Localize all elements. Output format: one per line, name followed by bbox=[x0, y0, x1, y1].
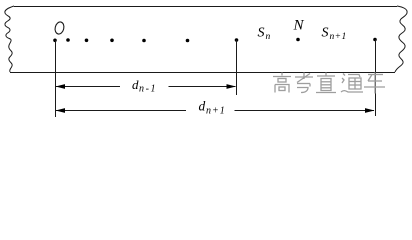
watermark char 车 bbox=[364, 73, 385, 94]
extension line from O bbox=[55, 40, 57, 117]
dimension arrow dn+1 right segment bbox=[235, 110, 375, 112]
paper tape right torn edge bbox=[395, 6, 407, 72]
dimension arrow dn-1 right segment bbox=[169, 86, 236, 88]
dot 5 bbox=[142, 39, 146, 43]
paper tape top edge bbox=[14, 6, 397, 8]
watermark char 直 bbox=[316, 73, 336, 93]
extension line at Sn boundary bbox=[236, 40, 238, 95]
dot 4 bbox=[110, 39, 114, 43]
svg-text:S: S bbox=[258, 26, 265, 41]
paper tape bottom edge bbox=[10, 72, 395, 74]
dot 6 bbox=[186, 39, 190, 43]
dot 3 bbox=[85, 39, 89, 43]
dimension arrow dn+1 left segment bbox=[56, 110, 186, 112]
dot 8 (point N) bbox=[296, 38, 300, 42]
dn-1 left arrowhead bbox=[56, 84, 66, 89]
svg-text:N: N bbox=[293, 18, 305, 34]
svg-text:d: d bbox=[199, 99, 206, 114]
node O label (hand-drawn ellipse) bbox=[54, 21, 65, 35]
extension line right bbox=[375, 40, 377, 117]
watermark char 通 bbox=[341, 74, 363, 93]
dot 7 bbox=[235, 38, 239, 42]
dot 1 (point O) bbox=[53, 39, 57, 43]
dot 2 bbox=[66, 38, 70, 42]
dn+1 right arrowhead bbox=[365, 108, 375, 113]
svg-text:S: S bbox=[322, 26, 329, 41]
watermark 高考直通车 (drawn strokes, gray) bbox=[273, 73, 385, 94]
svg-text:n: n bbox=[266, 32, 271, 42]
dn+1 left arrowhead bbox=[56, 108, 66, 113]
watermark char 考 bbox=[295, 73, 313, 93]
svg-text:d: d bbox=[132, 77, 139, 92]
svg-text:n+1: n+1 bbox=[330, 32, 347, 42]
paper tape left torn edge bbox=[5, 6, 14, 72]
svg-text:n+1: n+1 bbox=[206, 106, 226, 117]
dot 9 bbox=[373, 38, 377, 42]
svg-text:n-1: n-1 bbox=[139, 84, 157, 95]
watermark char 高 bbox=[273, 73, 291, 93]
dimension arrow dn-1 left segment bbox=[56, 86, 120, 88]
dn-1 right arrowhead bbox=[227, 84, 237, 89]
